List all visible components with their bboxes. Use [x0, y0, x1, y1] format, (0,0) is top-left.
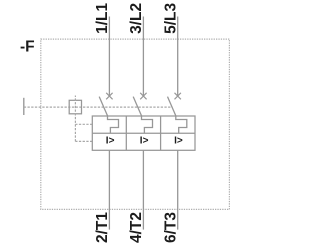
svg-text:I>: I> [106, 136, 115, 147]
svg-text:1/L1: 1/L1 [94, 3, 111, 34]
svg-text:4/T2: 4/T2 [128, 212, 145, 243]
svg-text:3/L2: 3/L2 [128, 3, 145, 34]
svg-text:2/T1: 2/T1 [94, 212, 111, 243]
svg-text:I>: I> [174, 136, 183, 147]
svg-text:-F: -F [20, 39, 35, 56]
svg-text:I>: I> [140, 136, 149, 147]
svg-text:6/T3: 6/T3 [163, 212, 180, 243]
svg-text:5/L3: 5/L3 [162, 3, 179, 34]
